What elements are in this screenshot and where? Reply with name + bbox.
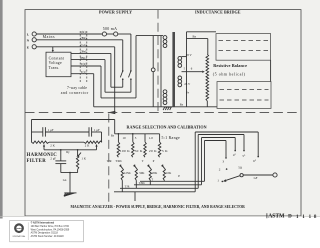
ASTM seal logo [14, 223, 24, 233]
svg-text:P: P [178, 174, 180, 178]
wire filter bottom [61, 172, 78, 174]
connector dashed tick left [79, 31, 81, 83]
bridge box upper [216, 34, 271, 61]
wire bridge left vertical [186, 32, 188, 107]
svg-text:Constant: Constant [49, 57, 65, 61]
junction dot c [69, 172, 71, 174]
wire T1 vertical [93, 74, 95, 107]
wiper arrow lower 3 [148, 165, 150, 168]
wire range col2 top [132, 134, 134, 142]
bridge box lower [217, 82, 271, 109]
resistor R1 2K pot [32, 141, 50, 143]
wire range bus [115, 133, 160, 135]
wire C2 drop [101, 132, 103, 142]
transformer T1 box [46, 52, 71, 76]
wire resistor row [49, 141, 84, 143]
wiper arrow lower 4 [162, 165, 164, 168]
wiper arrow R2 [96, 146, 98, 150]
left scan edge strip [0, 0, 3, 219]
capacitor C3 2uF lead [60, 150, 62, 161]
bridge box lower dashed line 2 [220, 99, 269, 101]
wire U-turn outer [101, 97, 136, 99]
svg-text:T(2): T(2) [81, 62, 87, 66]
svg-text:D: D [288, 215, 292, 220]
ground under transformer [164, 106, 172, 108]
svg-text:P: P [153, 159, 155, 163]
svg-text:T/Rb: T/Rb [139, 181, 146, 185]
svg-text:T/Rb: T/Rb [115, 159, 122, 163]
wire top h1 [195, 131, 258, 133]
wire L to fuse [36, 33, 102, 35]
wire T1 row [71, 73, 94, 75]
resistor range lower 3 [149, 168, 151, 180]
svg-text:50K: 50K [139, 171, 145, 175]
resistor range lower 1 [121, 168, 123, 180]
resistor range lower 4 [163, 168, 165, 180]
wire filter top [32, 119, 115, 121]
resistor R3 1K [76, 155, 78, 169]
svg-text:Ry: Ry [66, 150, 70, 154]
terminal N [32, 38, 36, 42]
svg-text:Mains: Mains [43, 35, 55, 39]
wire stub down [134, 192, 136, 201]
wire bottom bus [94, 106, 217, 108]
svg-text:1 μF: 1 μF [94, 128, 100, 132]
transformer T2 core [172, 32, 175, 107]
svg-text:(5 ohm helical): (5 ohm helical) [213, 72, 246, 77]
svg-text:1.0: 1.0 [149, 136, 153, 140]
wire pivot to terminal [243, 174, 273, 176]
wire staircase v1 [204, 141, 206, 182]
svg-text:INDUCTANCE BRIDGE: INDUCTANCE BRIDGE [195, 10, 241, 15]
wire Bn vertical [122, 40, 124, 71]
wire lower col3 bottom [149, 180, 151, 185]
wire filter top drop [114, 120, 116, 134]
svg-text:125K: 125K [124, 171, 132, 175]
wire top h2 [198, 134, 244, 136]
svg-text:500 mA: 500 mA [103, 27, 117, 31]
svg-text:© ASTM International: © ASTM International [31, 222, 55, 225]
svg-text:1 K: 1 K [81, 156, 86, 160]
wire Bx vertical [207, 39, 209, 54]
svg-text:astm: astm [17, 227, 22, 230]
svg-text:RANGE SELECTION AND CALIBRATIO: RANGE SELECTION AND CALIBRATION [127, 124, 207, 129]
svg-text:(BK): (BK) [80, 56, 87, 60]
wire staircase v3 [197, 135, 199, 189]
wire staircase v2 [201, 138, 203, 185]
svg-text:5 K: 5 K [162, 149, 168, 153]
wire top h3 [202, 137, 236, 139]
wire E branch to transformer box [52, 47, 54, 50]
rotary contact 2 [226, 168, 228, 170]
schematic border frame [25, 10, 301, 216]
lamp DS1 [151, 68, 155, 72]
dashed section divider vertical lower [108, 114, 110, 206]
svg-text:T: T [142, 159, 144, 163]
svg-text:(Gn): (Gn) [80, 43, 86, 47]
rotary contact 1 [222, 181, 224, 183]
svg-text:1 μF: 1 μF [48, 128, 54, 132]
svg-text:Gn: Gn [63, 178, 67, 182]
resistor range upper 3 [144, 142, 147, 157]
svg-text:2 K: 2 K [85, 143, 90, 147]
wire rail 4 [114, 191, 195, 193]
wire bridge top [187, 31, 217, 33]
wire lamp vertical bottom [152, 72, 154, 107]
ground arrow at divider [108, 111, 116, 114]
wiper arrow lower 2 [134, 165, 136, 168]
resistor range upper 2 [132, 142, 135, 157]
wire T2 vertical [100, 66, 102, 98]
svg-text:(R): (R) [81, 30, 85, 34]
fuse F1 500 mA [102, 32, 106, 36]
wire E row [36, 46, 114, 48]
svg-text:(Be): (Be) [81, 50, 87, 54]
transformer T2 secondary upper winding [178, 56, 182, 67]
wire N row [36, 39, 122, 41]
wire range col4 top [159, 134, 161, 142]
wire lower col1 bottom [121, 180, 123, 192]
svg-text:28 V: 28 V [184, 82, 191, 86]
transformer T2 primary lower winding [163, 90, 167, 105]
wire to lamp [136, 35, 163, 37]
wire helipot bottom [206, 101, 208, 107]
svg-text:ASTM Stock Number: 40.D1118: ASTM Stock Number: 40.D1118 [31, 235, 65, 238]
svg-text:10K: 10K [166, 171, 172, 175]
svg-text:ASTM Designation: D1118: ASTM Designation: D1118 [31, 232, 59, 235]
svg-text:20K: 20K [152, 171, 158, 175]
svg-text:ASTM: ASTM [268, 213, 285, 220]
wire lamp vertical top [152, 36, 154, 68]
wire center tap with arrow [182, 71, 203, 73]
svg-text:Trans.: Trans. [49, 66, 60, 70]
capacitor C1 1uF [42, 127, 44, 136]
resistor R balance helipot [206, 54, 209, 101]
dashed section divider horizontal [25, 112, 301, 114]
wire wiper bus [44, 149, 97, 151]
wire filter mid row c [92, 131, 102, 133]
transformer T2 secondary lower winding [178, 76, 182, 87]
wiper arrow lower 1 [120, 165, 122, 168]
svg-text:50 K: 50 K [135, 149, 143, 153]
wire ground drop [69, 173, 71, 193]
wire U-turn inner [111, 86, 123, 88]
svg-text:MAGNETIC ANALYZER - POWER SUPP: MAGNETIC ANALYZER - POWER SUPPLY, BRIDGE… [71, 205, 246, 209]
resistor R3 1K lead [77, 150, 79, 155]
wiper arrow R1 [43, 146, 45, 150]
wire lower col2 bottom [135, 180, 137, 188]
svg-text:POWER SUPPLY: POWER SUPPLY [99, 10, 132, 15]
rotary pivot [240, 174, 243, 177]
terminal L [32, 32, 36, 36]
wire drop contact 3 [225, 141, 227, 158]
wire Be row [71, 52, 111, 54]
designation ASTM tick [266, 213, 268, 218]
wire BK row [71, 59, 105, 61]
bridge box upper dashed line 2 [219, 50, 269, 52]
wire R3 bottom [77, 169, 79, 172]
switch S1a [122, 70, 124, 72]
svg-text:T/R: T/R [125, 185, 130, 189]
junction dot r1 [118, 133, 120, 135]
info box divider [27, 222, 29, 240]
switch S1b [130, 70, 132, 72]
svg-text:Bx: Bx [193, 34, 197, 38]
svg-text:7-way cable: 7-way cable [67, 86, 87, 90]
resistor range upper 4 [158, 142, 161, 157]
wire U-turn mid [105, 91, 131, 93]
connector dashed tick right [86, 31, 88, 83]
wire Bx row [187, 38, 208, 40]
wire between boxes [270, 60, 272, 81]
terminal E [32, 45, 36, 49]
bridge box upper dashed line 1 [219, 40, 269, 42]
svg-text:FILTER: FILTER [27, 159, 47, 164]
svg-text:T: T [151, 178, 153, 182]
wire staircase v4 [194, 132, 196, 192]
wire filter mid row a [32, 131, 43, 133]
bridge box lower dashed line 1 [220, 89, 269, 91]
svg-text:GF: GF [254, 176, 258, 180]
capacitor C3 2uF [55, 160, 66, 162]
ground filter [64, 192, 76, 194]
rotary wiper arm [225, 176, 240, 181]
transformer T2 primary upper winding [163, 36, 167, 48]
wire filter mid row b [45, 131, 89, 133]
wire rail 3 [120, 187, 198, 189]
wire range col1 top [117, 134, 119, 142]
svg-text:20 K: 20 K [149, 149, 157, 153]
ASTM info box [10, 220, 84, 241]
capacitor C3 lower lead [60, 164, 62, 173]
transformer T2 primary rail [160, 36, 162, 107]
svg-text:2 μF: 2 μF [50, 156, 56, 160]
dashed section divider vertical [157, 10, 159, 113]
wire secondary top tap [182, 56, 187, 58]
svg-text:and connector: and connector [61, 91, 89, 95]
wire fuse to corner [118, 33, 131, 35]
wire lower col4 bottom [163, 180, 165, 181]
svg-text:2 K: 2 K [50, 143, 55, 147]
svg-text:5:1 Range: 5:1 Range [162, 136, 181, 140]
svg-text:(Bn): (Bn) [81, 36, 87, 40]
svg-text:West Conshohocken, PA 19428-29: West Conshohocken, PA 19428-2959 [31, 228, 70, 231]
svg-text:Voltage: Voltage [49, 61, 62, 65]
wire top h4 [205, 140, 227, 142]
wire drop contact 5 [243, 135, 245, 151]
resistor range lower 2 [135, 168, 137, 180]
wire filter left vertical [31, 120, 33, 143]
svg-text:100 Barr Harbor Drive, PO Box: 100 Barr Harbor Drive, PO Box C700 [31, 225, 70, 228]
wire below S1b [130, 80, 132, 93]
wiper arrow R3 [79, 153, 81, 156]
svg-text:10: 10 [122, 136, 126, 140]
svg-text:Resistive Balance: Resistive Balance [213, 63, 247, 68]
junction dot r2 [132, 133, 134, 135]
svg-text:T(1): T(1) [81, 70, 87, 74]
resistor R2 2K pot [84, 141, 102, 143]
wire drop contact 6 [257, 132, 259, 156]
junction dot b [77, 149, 79, 151]
wire rail 2 [134, 184, 202, 186]
wire R vertical [130, 34, 132, 71]
page bottom edge [0, 215, 320, 217]
wire range col3 top [144, 134, 146, 142]
wire Gn vertical to ground arrow [114, 47, 116, 112]
junction dot a [60, 149, 62, 151]
wire drop contact 4 [234, 138, 236, 151]
svg-text:28 V: 28 V [186, 53, 193, 57]
capacitor C2 1uF [88, 127, 90, 136]
terminal GF [273, 173, 277, 177]
svg-text:100 K: 100 K [120, 149, 130, 153]
resistor range upper 1 [117, 142, 120, 157]
wire below S1a [122, 80, 124, 88]
wire rail 1 [140, 180, 205, 182]
wire T2 row [71, 65, 101, 67]
